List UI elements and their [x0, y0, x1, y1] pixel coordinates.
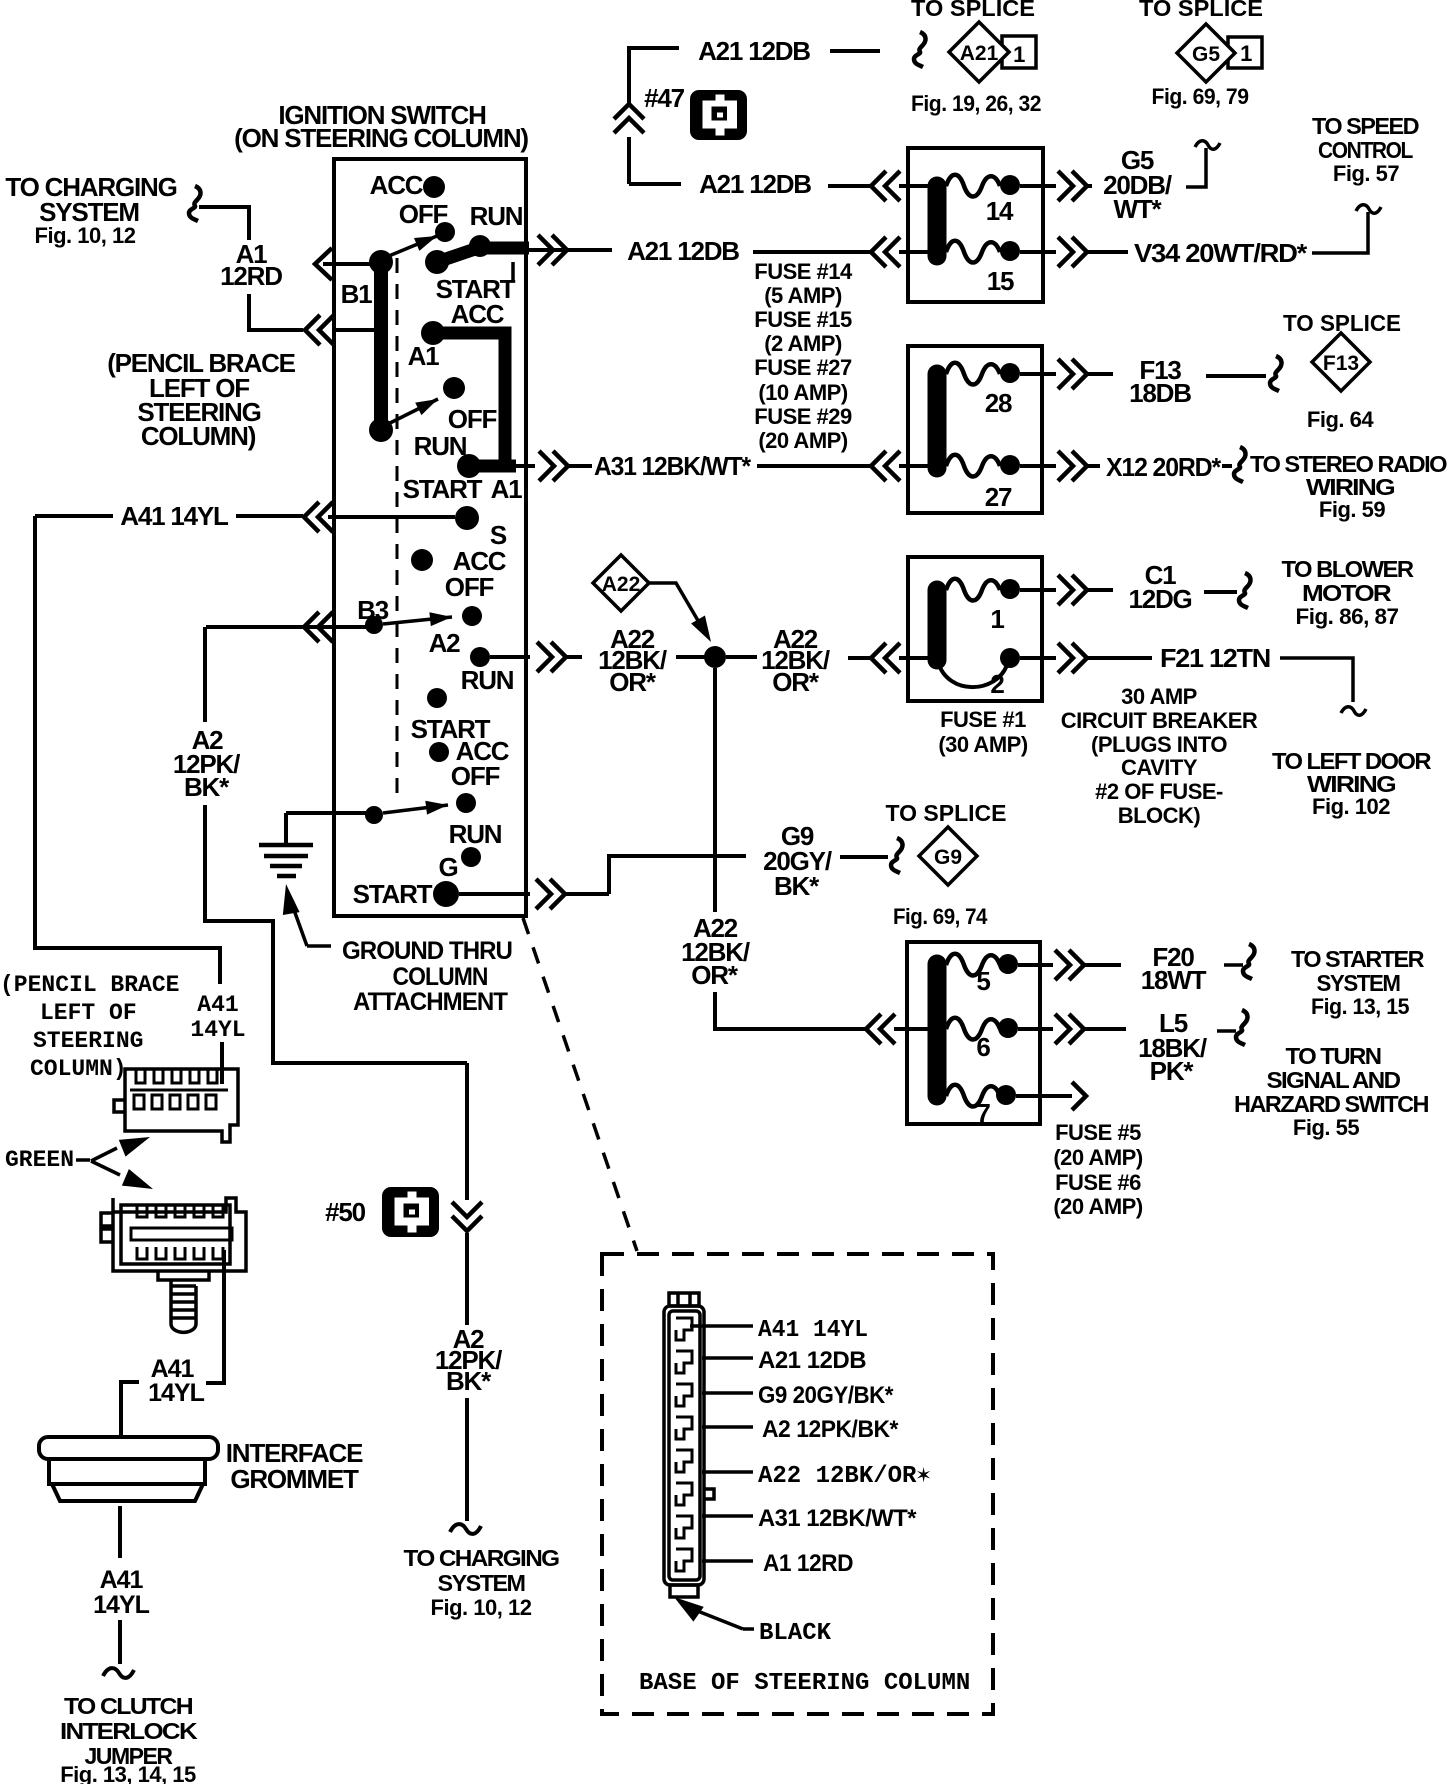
single chevron B1 exit: [315, 248, 332, 280]
fuse 14 element: [946, 175, 1000, 197]
fuse 7 output dot: [996, 1085, 1016, 1105]
connector upper pin slots: [130, 1069, 228, 1109]
breaker output dot: [1000, 648, 1020, 668]
svg-text:1: 1: [1240, 41, 1252, 66]
break squiggle clutch: [103, 1668, 134, 1678]
contact A1 thick C-shape: [433, 333, 505, 466]
fuse 5 output wire: [1018, 963, 1053, 967]
svg-text:TO STARTER: TO STARTER: [1291, 946, 1425, 972]
contact dot ACC row3: [411, 549, 433, 571]
svg-text:RUN: RUN: [449, 819, 502, 849]
svg-text:BLACK: BLACK: [759, 1620, 832, 1647]
contact dot OFF row1: [435, 222, 455, 242]
svg-text:SYSTEM: SYSTEM: [438, 1570, 525, 1596]
svg-text:A1 12RD: A1 12RD: [763, 1550, 853, 1577]
svg-text:Fig. 13, 14, 15: Fig. 13, 14, 15: [60, 1762, 196, 1784]
circuit breaker 30A element (cavity 2): [938, 662, 1007, 687]
svg-text:F21 12TN: F21 12TN: [1160, 643, 1270, 673]
wire to splice A21: [830, 49, 880, 53]
svg-text:A1: A1: [408, 341, 440, 371]
svg-text:14YL: 14YL: [93, 1591, 149, 1619]
svg-text:COLUMN): COLUMN): [30, 1056, 127, 1082]
svg-text:Fig. 69, 74: Fig. 69, 74: [893, 904, 988, 929]
exit wire A22 from A2 contact: [490, 655, 530, 659]
wire A2 12PK/BK* entry to B3: [206, 625, 366, 629]
svg-text:TO SPEED: TO SPEED: [1312, 113, 1419, 139]
selector arrow ground arm to OFF: [383, 805, 448, 813]
svg-text:OFF: OFF: [445, 572, 494, 602]
wire A2 vertical: [203, 627, 207, 722]
svg-text:B3: B3: [357, 595, 389, 625]
exit wire A21 row: [529, 248, 612, 252]
svg-text:(20 AMP): (20 AMP): [758, 428, 847, 453]
dashed box BASE OF STEERING COLUMN: [602, 1254, 993, 1714]
svg-text:A41 14YL: A41 14YL: [758, 1317, 868, 1344]
selector arrow B3 to OFF: [383, 617, 452, 624]
svg-text:A41: A41: [197, 992, 238, 1018]
svg-text:Fig. 57: Fig. 57: [1333, 161, 1399, 186]
threaded stud: [171, 1280, 196, 1332]
pin leader A22: [702, 1470, 753, 1474]
svg-text:A31 12BK/WT*: A31 12BK/WT*: [594, 451, 752, 481]
svg-text:FUSE #15: FUSE #15: [754, 307, 852, 332]
svg-text:14YL: 14YL: [148, 1379, 204, 1407]
svg-text:GROMMET: GROMMET: [230, 1464, 359, 1494]
bus bar B1: [374, 262, 388, 430]
svg-text:RUN: RUN: [461, 665, 514, 695]
svg-text:2: 2: [990, 669, 1004, 699]
fuse 6 output wire: [1018, 1027, 1053, 1031]
arrow from A22 diamond to junction: [649, 583, 700, 624]
svg-text:FUSE #6: FUSE #6: [1055, 1170, 1141, 1195]
svg-text:Fig. 102: Fig. 102: [1312, 794, 1390, 819]
svg-text:A22 12BK/OR✶: A22 12BK/OR✶: [758, 1463, 931, 1490]
svg-text:PK*: PK*: [1150, 1056, 1195, 1086]
svg-text:Fig. 55: Fig. 55: [1293, 1115, 1359, 1140]
fuse 14 output wire: [1020, 184, 1056, 188]
svg-text:G9: G9: [934, 846, 962, 869]
connector bracket to speed control: [1186, 148, 1206, 187]
fuse 14 output dot: [1000, 175, 1020, 195]
fuse bus bar 1/2: [928, 590, 947, 660]
svg-text:Fig. 10, 12: Fig. 10, 12: [35, 223, 136, 248]
pin leader A41: [690, 1324, 753, 1328]
svg-text:BASE OF STEERING COLUMN: BASE OF STEERING COLUMN: [639, 1670, 970, 1697]
fuse 27 output wire: [1020, 464, 1056, 468]
svg-text:OR*: OR*: [691, 960, 739, 990]
wire to blower: [1204, 590, 1237, 594]
fuse bus bar 5/6/7: [928, 964, 947, 1096]
fuse 5 element: [946, 954, 1000, 976]
contact dot S row (A41 entry): [455, 506, 479, 530]
svg-text:SIGNAL AND: SIGNAL AND: [1267, 1067, 1401, 1093]
svg-text:18DB: 18DB: [1129, 378, 1191, 408]
svg-text:18WT: 18WT: [1141, 965, 1207, 995]
contact dot START row4: [427, 688, 447, 708]
tick mark below RUN bar: [511, 262, 515, 281]
svg-text:15: 15: [987, 266, 1014, 296]
fuse 15 element: [946, 241, 1000, 263]
svg-text:A2: A2: [429, 628, 461, 658]
svg-text:Fig. 69, 79: Fig. 69, 79: [1152, 84, 1249, 109]
selector arrow B1 to OFF row2: [384, 399, 438, 426]
contact dot OFF row3: [462, 606, 482, 626]
svg-text:A21: A21: [960, 42, 999, 65]
ground leader arrow: [278, 883, 300, 915]
svg-text:G9 20GY/BK*: G9 20GY/BK*: [758, 1382, 894, 1409]
svg-text:12DG: 12DG: [1128, 584, 1191, 614]
svg-text:BK*: BK*: [184, 772, 230, 802]
column connector body: [664, 1293, 714, 1597]
svg-text:A21 12DB: A21 12DB: [758, 1347, 866, 1374]
svg-text:12RD: 12RD: [220, 261, 282, 291]
selector arrow B1 to OFF: [384, 236, 437, 258]
ground arm contact dot: [365, 806, 383, 824]
wire F21 to left door: [1280, 658, 1353, 702]
svg-text:BK*: BK*: [774, 871, 820, 901]
ignition switch U1 box: [334, 159, 526, 916]
dashed leader from switch to base-of-column box: [523, 918, 637, 1251]
svg-text:FUSE #29: FUSE #29: [754, 404, 852, 429]
svg-text:CAVITY: CAVITY: [1121, 755, 1198, 780]
fuse 27 output dot: [1000, 455, 1020, 475]
break squiggle to splice G9: [891, 838, 903, 873]
svg-text:ATTACHMENT: ATTACHMENT: [353, 988, 508, 1016]
contact dot B3: [365, 616, 383, 634]
svg-text:14: 14: [986, 196, 1014, 226]
svg-text:(PLUGS INTO: (PLUGS INTO: [1091, 732, 1227, 757]
svg-text:(PENCIL BRACE: (PENCIL BRACE: [0, 972, 179, 998]
wire A1 12RD: [199, 207, 249, 240]
connector lower pin slots: [131, 1205, 232, 1259]
svg-text:28: 28: [985, 388, 1012, 418]
fuse 28 element: [946, 363, 1000, 385]
svg-text:COLUMN): COLUMN): [141, 421, 256, 451]
splice tag 1 (A21): [1002, 36, 1036, 68]
svg-text:(20 AMP): (20 AMP): [1053, 1194, 1142, 1219]
fuse 28 output dot: [1000, 363, 1020, 383]
wire A41 14YL entry: [328, 515, 455, 519]
bracket to turn signal: [1217, 1029, 1236, 1033]
splice reference diamond A22: [593, 555, 649, 611]
svg-text:A41 14YL: A41 14YL: [120, 501, 229, 531]
fuse 15 output dot: [1000, 241, 1020, 261]
svg-text:OR*: OR*: [772, 667, 820, 697]
svg-text:V34 20WT/RD*: V34 20WT/RD*: [1134, 238, 1308, 268]
svg-text:B1: B1: [341, 279, 373, 309]
break squiggle to stereo: [1222, 464, 1232, 468]
fuse 6 output dot: [998, 1018, 1018, 1038]
svg-text:7: 7: [976, 1098, 990, 1128]
svg-text:(5 AMP): (5 AMP): [764, 283, 842, 308]
svg-text:WT*: WT*: [1114, 194, 1163, 224]
fuse block box 5/6/7: [907, 942, 1040, 1124]
svg-text:Fig. 13, 15: Fig. 13, 15: [1311, 994, 1409, 1019]
fuse 1 output wire: [1020, 588, 1056, 592]
svg-text:FUSE #1: FUSE #1: [940, 707, 1026, 732]
fuse 28 output wire: [1020, 372, 1056, 376]
interface grommet: [39, 1437, 218, 1501]
fuse block box 1/2: [908, 557, 1042, 701]
splice tag 1 (G5): [1228, 37, 1262, 68]
fuse block box 14/15: [908, 148, 1043, 302]
svg-text:14YL: 14YL: [190, 1017, 245, 1043]
break squiggle splice F13: [1270, 356, 1282, 391]
svg-text:FUSE #14: FUSE #14: [754, 259, 853, 284]
fuse 7 element: [946, 1085, 1000, 1107]
svg-text:A21 12DB: A21 12DB: [698, 36, 810, 66]
svg-text:LEFT OF: LEFT OF: [40, 1000, 137, 1026]
svg-text:FUSE #27: FUSE #27: [754, 355, 852, 380]
svg-text:BK*: BK*: [446, 1366, 492, 1396]
svg-text:GREEN: GREEN: [5, 1147, 74, 1173]
splice F13: [1312, 333, 1370, 391]
svg-text:1: 1: [1013, 42, 1025, 67]
splice G5: [1177, 24, 1235, 82]
svg-text:FUSE #5: FUSE #5: [1055, 1120, 1141, 1145]
break squiggle charging bottom: [450, 1524, 481, 1534]
wire A21 12DB branch vertical: [629, 48, 679, 104]
breaker output wire: [1020, 656, 1056, 660]
wire A2 down to charging: [465, 1063, 469, 1200]
wire A41 14YL long left run: [35, 516, 220, 984]
svg-text:COLUMN: COLUMN: [393, 963, 488, 991]
svg-text:A21 12DB: A21 12DB: [627, 236, 739, 266]
svg-text:CONTROL: CONTROL: [1318, 137, 1413, 163]
svg-text:Fig. 10, 12: Fig. 10, 12: [431, 1595, 532, 1620]
svg-text:G5: G5: [1192, 43, 1220, 66]
grommet #50: [382, 1187, 439, 1237]
svg-text:A1: A1: [491, 474, 523, 504]
arrow BLACK: [669, 1590, 704, 1622]
svg-text:OFF: OFF: [448, 404, 497, 434]
svg-text:A21 12DB: A21 12DB: [699, 169, 811, 199]
splice A21: [949, 22, 1009, 82]
svg-text:Fig. 86, 87: Fig. 86, 87: [1296, 604, 1399, 629]
svg-text:(ON STEERING COLUMN): (ON STEERING COLUMN): [234, 123, 528, 153]
wire to ground: [286, 811, 366, 815]
svg-text:#2 OF FUSE-: #2 OF FUSE-: [1095, 779, 1223, 804]
ground symbol: [259, 843, 313, 848]
svg-text:OFF: OFF: [451, 761, 500, 791]
pin leader A1: [702, 1559, 753, 1563]
connector upper (green) body: [114, 1069, 238, 1142]
contact dot A2/RUN: [470, 647, 490, 667]
pin leader G9: [702, 1391, 753, 1395]
contact dot G: [461, 847, 481, 867]
svg-text:TO TURN: TO TURN: [1286, 1043, 1382, 1069]
svg-text:SYSTEM: SYSTEM: [1317, 970, 1400, 996]
svg-text:(10 AMP): (10 AMP): [758, 380, 847, 405]
wire A41 below grommet: [118, 1506, 122, 1558]
svg-text:30 AMP: 30 AMP: [1121, 684, 1197, 709]
wire to splice F13: [1206, 374, 1266, 378]
contact dot START/G9 exit: [433, 881, 459, 907]
wire A41 from lower connector: [206, 1250, 224, 1383]
svg-text:27: 27: [985, 482, 1012, 512]
pin leader A21: [702, 1356, 753, 1360]
wire A22 down from junction: [713, 668, 717, 912]
svg-text:TO SPLICE: TO SPLICE: [1139, 0, 1263, 21]
svg-text:START: START: [353, 879, 433, 909]
fuse 5 output dot: [998, 954, 1018, 974]
svg-text:6: 6: [976, 1032, 990, 1062]
svg-text:1: 1: [990, 604, 1004, 634]
svg-text:#47: #47: [644, 83, 685, 113]
contact dot OFF row4: [456, 793, 476, 813]
connector lower (green) body: [101, 1198, 246, 1280]
svg-text:RUN: RUN: [470, 201, 523, 231]
svg-text:#50: #50: [325, 1197, 366, 1227]
wire G9 20GY/BK* exit: [459, 892, 530, 896]
fuse block box 28/27: [908, 346, 1042, 513]
svg-text:Fig. 64: Fig. 64: [1307, 407, 1374, 432]
svg-text:(30 AMP): (30 AMP): [938, 732, 1027, 757]
svg-text:A31 12BK/WT*: A31 12BK/WT*: [758, 1505, 917, 1532]
fuse 1 output dot: [1000, 579, 1020, 599]
fuse 15 output wire: [1020, 250, 1056, 254]
svg-text:HARZARD SWITCH: HARZARD SWITCH: [1234, 1091, 1429, 1117]
svg-text:X12 20RD*: X12 20RD*: [1106, 452, 1222, 482]
svg-text:GROUND THRU: GROUND THRU: [342, 937, 512, 965]
svg-text:ACC: ACC: [451, 299, 505, 329]
svg-text:TO CLUTCH: TO CLUTCH: [64, 1693, 193, 1719]
svg-text:ACC: ACC: [370, 170, 424, 200]
pin leader A2: [702, 1425, 753, 1429]
svg-text:BLOCK): BLOCK): [1118, 803, 1201, 828]
svg-text:TO SPLICE: TO SPLICE: [911, 0, 1035, 21]
break squiggle blower: [1239, 573, 1251, 608]
svg-text:CIRCUIT BREAKER: CIRCUIT BREAKER: [1061, 708, 1258, 733]
svg-text:(2 AMP): (2 AMP): [764, 331, 842, 356]
splice G9: [919, 827, 977, 885]
contact dot OFF row2: [443, 377, 465, 399]
svg-text:Fig. 19, 26, 32: Fig. 19, 26, 32: [911, 91, 1041, 116]
svg-text:A22: A22: [602, 573, 641, 596]
column connector pins: [676, 1318, 692, 1571]
wire V34 to speed control: [1312, 212, 1368, 253]
fuse 1 element: [946, 579, 1000, 601]
dashed internal divider: [396, 258, 399, 795]
svg-text:A2 12PK/BK*: A2 12PK/BK*: [762, 1416, 899, 1443]
grommet #47: [690, 90, 747, 140]
fuse bus bar 28/27: [928, 374, 947, 468]
fuse 27 element: [946, 455, 1000, 477]
svg-text:OR*: OR*: [609, 667, 657, 697]
svg-text:F13: F13: [1323, 352, 1359, 375]
pin leader A31: [702, 1514, 753, 1518]
fuse 6 element: [946, 1018, 1000, 1040]
svg-text:MOTOR: MOTOR: [1302, 580, 1392, 606]
svg-text:5: 5: [976, 966, 990, 996]
fuse 7 output wire: [1016, 1094, 1072, 1098]
svg-text:START: START: [403, 474, 483, 504]
contact dot ACC row4: [429, 742, 449, 762]
svg-text:RUN: RUN: [414, 431, 467, 461]
svg-text:TO CHARGING: TO CHARGING: [404, 1545, 560, 1571]
switch arm RUN - thick contact to A21 output: [437, 247, 481, 262]
svg-text:TO SPLICE: TO SPLICE: [886, 800, 1007, 826]
green label arrows: [76, 1158, 90, 1162]
svg-text:(20 AMP): (20 AMP): [1053, 1145, 1142, 1170]
svg-text:INTERLOCK: INTERLOCK: [60, 1718, 198, 1744]
junction node A22: [704, 646, 726, 668]
exit wire A31 row: [510, 464, 535, 468]
svg-text:STEERING: STEERING: [33, 1028, 143, 1054]
fuse bus bar 14/15: [928, 186, 947, 256]
break squiggle charging: [189, 186, 201, 221]
bracket to starter: [1224, 963, 1243, 967]
svg-text:TO BLOWER: TO BLOWER: [1282, 556, 1415, 582]
svg-text:A41: A41: [100, 1566, 144, 1594]
break squiggle splice A21: [914, 32, 926, 67]
svg-text:G: G: [438, 852, 457, 882]
svg-text:TO SPLICE: TO SPLICE: [1283, 310, 1401, 336]
svg-text:Fig. 59: Fig. 59: [1319, 497, 1385, 522]
